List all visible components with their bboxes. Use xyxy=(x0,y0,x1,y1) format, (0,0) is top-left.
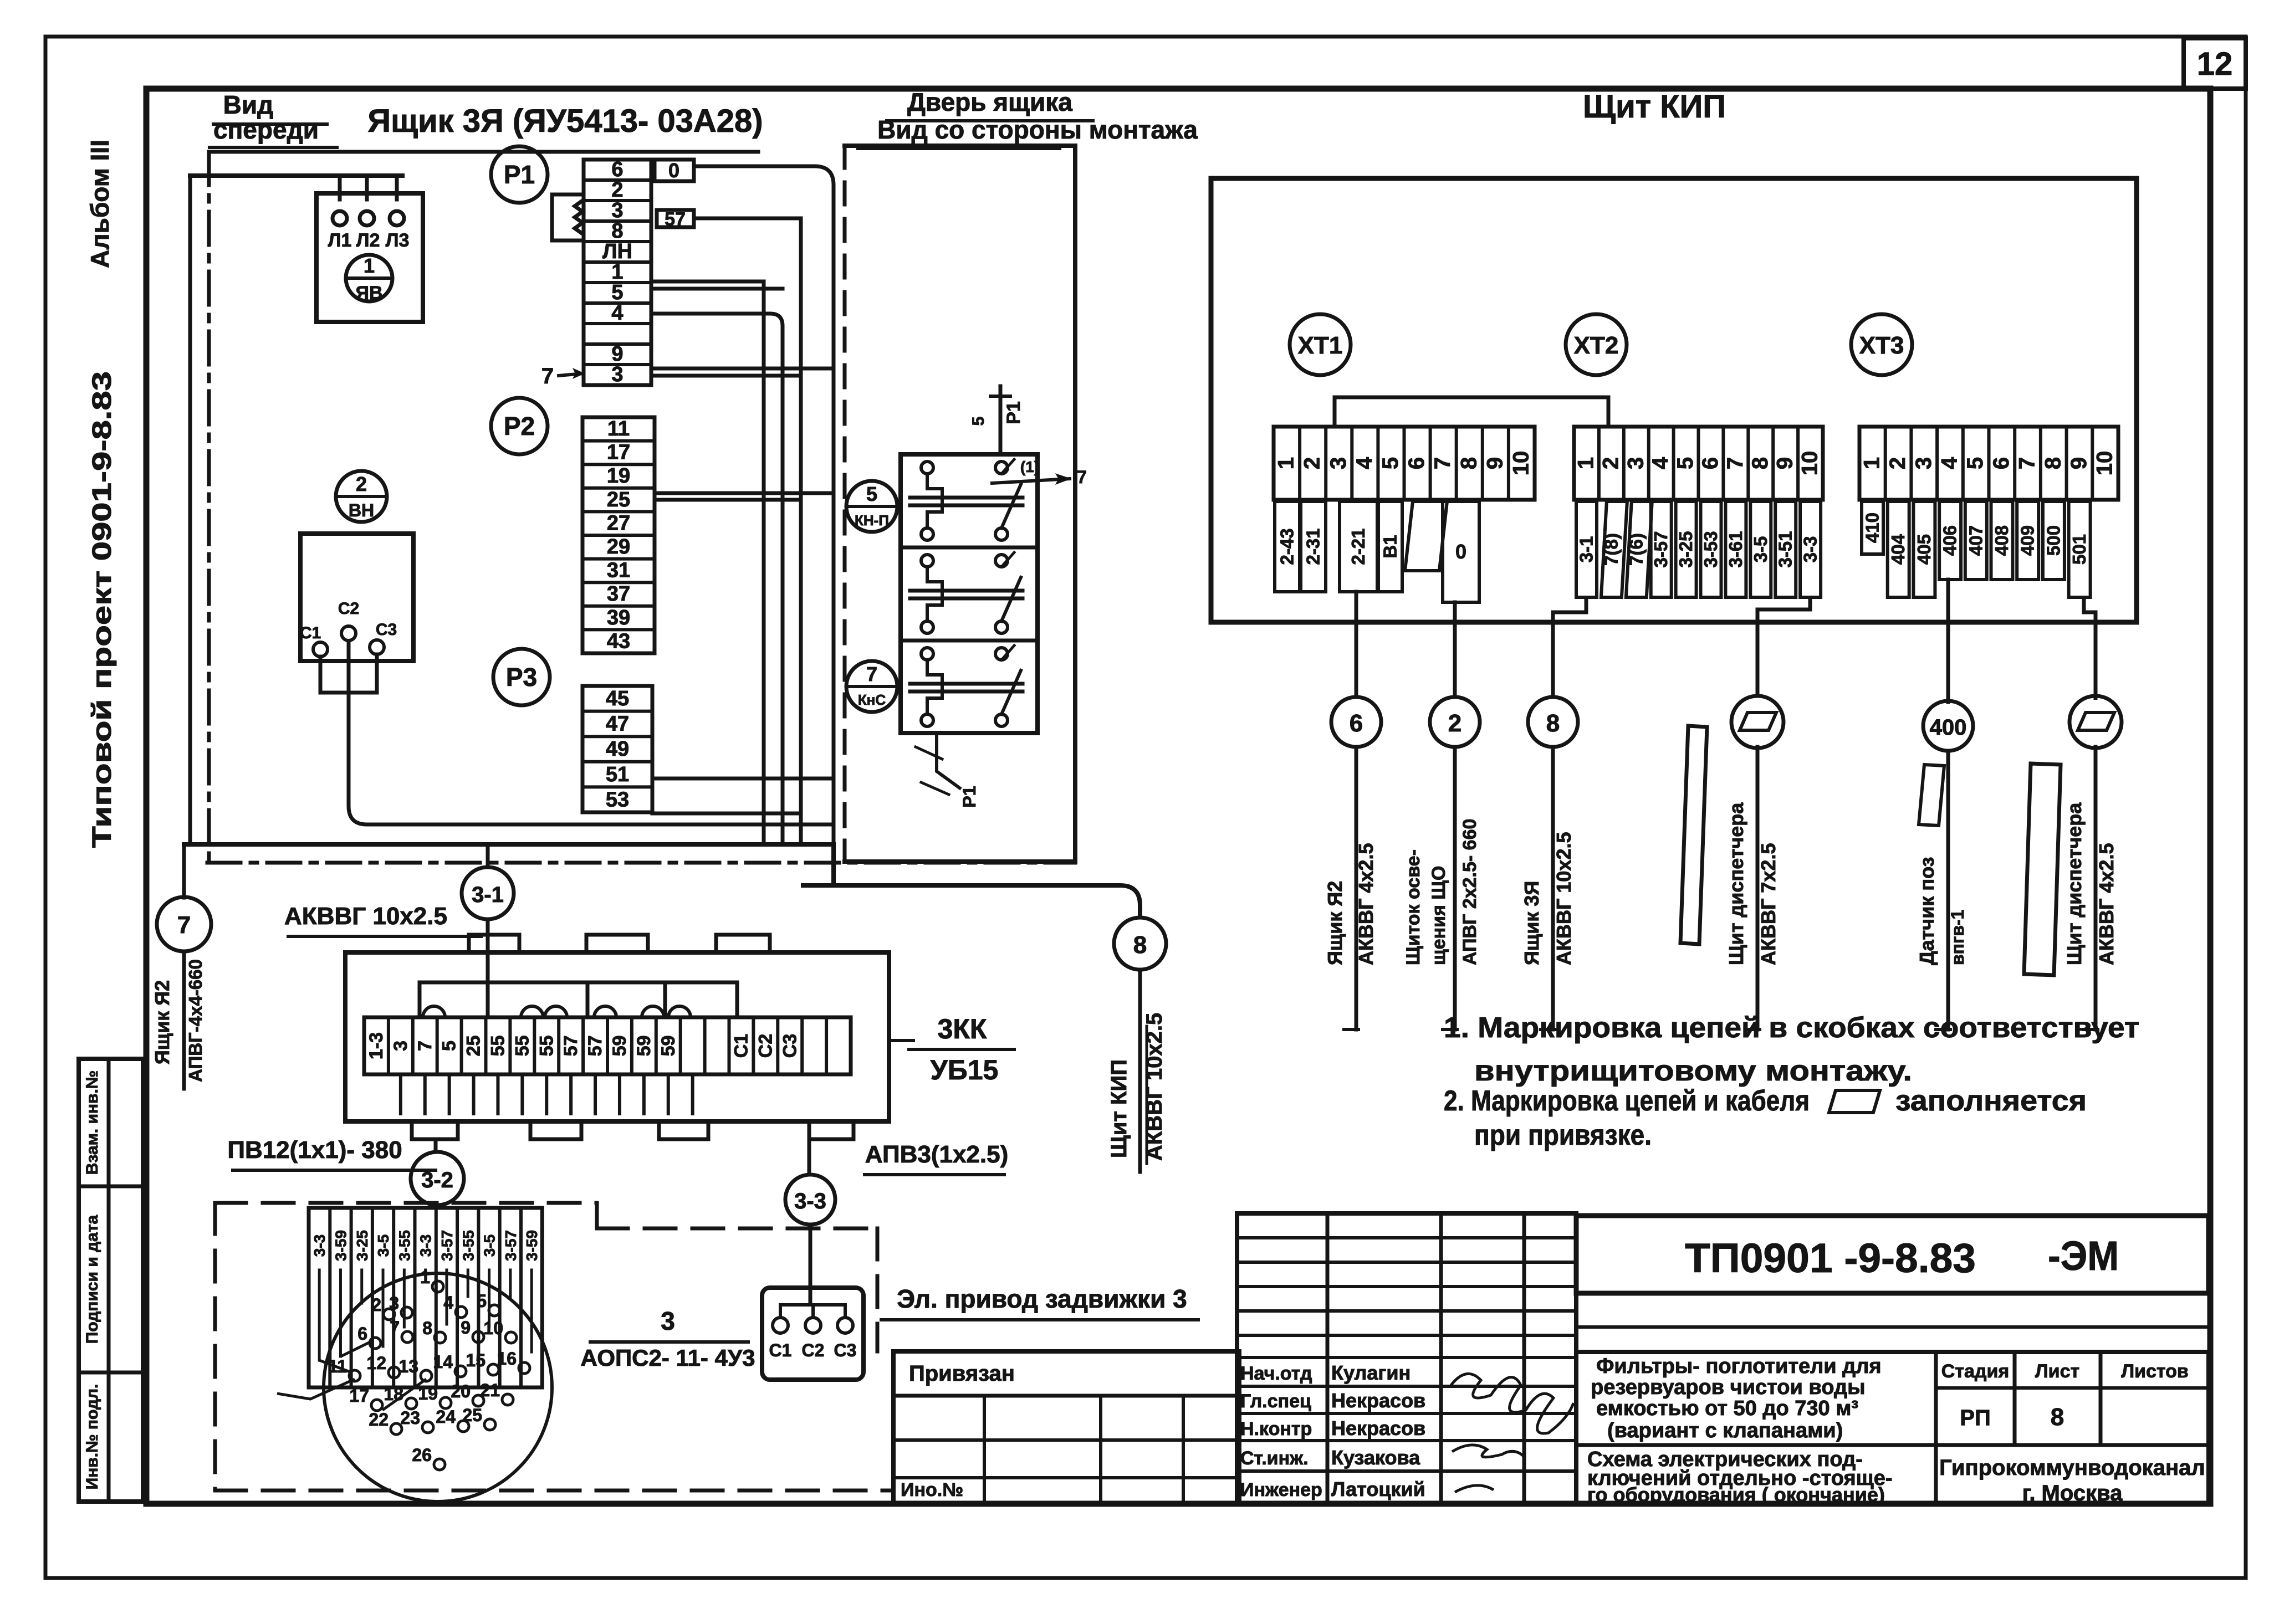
svg-text:9: 9 xyxy=(611,342,623,366)
svg-text:0: 0 xyxy=(1455,540,1466,563)
svg-text:емкостью от 50 до 730 м³: емкостью от 50 до 730 м³ xyxy=(1596,1397,1858,1420)
svg-text:3-57: 3-57 xyxy=(502,1230,519,1261)
svg-text:КнС: КнС xyxy=(858,691,886,708)
svg-text:АКВВГ 10х2.5: АКВВГ 10х2.5 xyxy=(284,903,447,930)
svg-text:57: 57 xyxy=(665,209,686,230)
svg-text:7: 7 xyxy=(177,911,191,939)
svg-text:4: 4 xyxy=(443,1293,453,1313)
svg-text:59: 59 xyxy=(609,1036,630,1057)
svg-text:3-59: 3-59 xyxy=(523,1230,540,1261)
svg-text:7: 7 xyxy=(2015,457,2040,469)
svg-text:10: 10 xyxy=(483,1318,503,1338)
svg-text:Некрасов: Некрасов xyxy=(1331,1417,1425,1439)
svg-text:7(8): 7(8) xyxy=(1601,533,1621,566)
svg-text:Взам. инв.№: Взам. инв.№ xyxy=(83,1070,101,1175)
svg-text:впгв-1: впгв-1 xyxy=(1948,910,1968,965)
svg-text:Привязан: Привязан xyxy=(909,1361,1015,1386)
svg-text:Альбом III: Альбом III xyxy=(85,140,114,268)
svg-text:9: 9 xyxy=(1483,457,1507,469)
svg-text:2: 2 xyxy=(1598,457,1623,469)
svg-text:АОПС2- 11- 4У3: АОПС2- 11- 4У3 xyxy=(581,1345,755,1371)
svg-text:Р2: Р2 xyxy=(504,412,535,440)
svg-text:Р1: Р1 xyxy=(504,160,535,189)
svg-text:С3: С3 xyxy=(376,621,397,639)
svg-text:12: 12 xyxy=(366,1353,386,1373)
svg-text:500: 500 xyxy=(2043,525,2063,556)
svg-text:29: 29 xyxy=(607,535,630,559)
svg-text:2-43: 2-43 xyxy=(1277,528,1297,565)
svg-text:5: 5 xyxy=(866,483,877,505)
svg-text:6: 6 xyxy=(1350,710,1363,737)
svg-text:Кулагин: Кулагин xyxy=(1331,1361,1411,1384)
svg-text:55: 55 xyxy=(487,1036,508,1057)
svg-text:Л2: Л2 xyxy=(356,230,380,251)
svg-text:0: 0 xyxy=(668,159,679,182)
svg-text:ВН: ВН xyxy=(349,500,374,520)
svg-text:22: 22 xyxy=(369,1410,389,1430)
svg-text:ТП0901 -9-8.83: ТП0901 -9-8.83 xyxy=(1685,1235,1976,1281)
svg-text:Ящик 3Я: Ящик 3Я xyxy=(1520,881,1543,965)
svg-text:Эл. привод задвижки 3: Эл. привод задвижки 3 xyxy=(897,1284,1187,1313)
svg-text:5: 5 xyxy=(969,417,988,426)
svg-text:Латоцкий: Латоцкий xyxy=(1331,1478,1425,1500)
svg-text:Л3: Л3 xyxy=(386,230,410,251)
svg-text:КН-П: КН-П xyxy=(855,512,889,529)
svg-text:3-51: 3-51 xyxy=(1775,531,1796,567)
svg-text:49: 49 xyxy=(606,737,629,761)
svg-text:3-5: 3-5 xyxy=(481,1234,498,1257)
svg-text:7(6): 7(6) xyxy=(1626,533,1646,566)
svg-text:С1: С1 xyxy=(300,624,321,642)
svg-text:Ящик Я2: Ящик Я2 xyxy=(151,980,173,1064)
svg-text:8: 8 xyxy=(611,219,623,243)
svg-text:6: 6 xyxy=(1698,457,1723,469)
svg-text:ХТ3: ХТ3 xyxy=(1859,332,1904,359)
svg-text:3-5: 3-5 xyxy=(1750,536,1771,563)
svg-text:Гипрокоммунводоканал: Гипрокоммунводоканал xyxy=(1939,1456,2205,1480)
svg-text:21: 21 xyxy=(480,1380,500,1400)
svg-text:2: 2 xyxy=(371,1295,381,1315)
svg-text:С3: С3 xyxy=(779,1034,800,1058)
svg-text:31: 31 xyxy=(607,559,630,582)
svg-text:Нач.отд: Нач.отд xyxy=(1240,1363,1312,1384)
svg-text:С3: С3 xyxy=(834,1340,857,1360)
svg-text:10: 10 xyxy=(2093,451,2117,476)
svg-text:8: 8 xyxy=(2041,457,2065,469)
svg-text:АПВГ 2х2.5- 660: АПВГ 2х2.5- 660 xyxy=(1459,819,1480,965)
svg-text:Фильтры- поглотители для: Фильтры- поглотители для xyxy=(1596,1355,1882,1378)
svg-text:3: 3 xyxy=(389,1293,399,1313)
svg-text:Некрасов: Некрасов xyxy=(1331,1389,1425,1412)
svg-text:внутрищитовому монтажу.: внутрищитовому монтажу. xyxy=(1474,1055,1912,1087)
svg-text:1: 1 xyxy=(1274,457,1299,469)
svg-text:Ящик 3Я (ЯУ5413- 03А28): Ящик 3Я (ЯУ5413- 03А28) xyxy=(367,103,763,139)
svg-text:Инв.№ подл.: Инв.№ подл. xyxy=(83,1384,101,1490)
svg-text:С2: С2 xyxy=(338,600,359,618)
svg-text:-ЭМ: -ЭМ xyxy=(2048,1233,2119,1279)
svg-text:1: 1 xyxy=(364,254,375,277)
svg-text:8: 8 xyxy=(1546,710,1560,737)
svg-text:Ящик Я2: Ящик Я2 xyxy=(1323,881,1346,965)
svg-text:8: 8 xyxy=(422,1318,432,1338)
svg-text:Подписи и дата: Подписи и дата xyxy=(83,1215,101,1344)
svg-text:11: 11 xyxy=(607,417,630,440)
svg-text:3-5: 3-5 xyxy=(375,1234,392,1257)
svg-text:ХТ1: ХТ1 xyxy=(1298,332,1343,359)
svg-text:410: 410 xyxy=(1862,513,1883,543)
svg-text:53: 53 xyxy=(606,788,629,811)
svg-text:5: 5 xyxy=(1673,457,1698,469)
svg-text:АКВВГ 10х2.5: АКВВГ 10х2.5 xyxy=(1552,832,1575,966)
svg-text:Ино.№: Ино.№ xyxy=(901,1479,963,1500)
svg-text:(вариант с клапанами): (вариант с клапанами) xyxy=(1607,1419,1843,1442)
svg-text:57: 57 xyxy=(560,1036,581,1057)
svg-text:3-3: 3-3 xyxy=(1800,536,1821,563)
svg-text:12: 12 xyxy=(2197,46,2233,82)
svg-text:2. Маркировка цепей и кабеля: 2. Маркировка цепей и кабеля xyxy=(1444,1085,1810,1117)
svg-text:3: 3 xyxy=(611,363,623,386)
svg-text:5: 5 xyxy=(477,1291,487,1311)
svg-text:37: 37 xyxy=(607,582,630,606)
svg-text:Р1: Р1 xyxy=(1003,401,1024,424)
svg-text:Кузакова: Кузакова xyxy=(1331,1446,1420,1469)
svg-text:55: 55 xyxy=(536,1036,557,1057)
svg-text:С1: С1 xyxy=(730,1034,752,1058)
svg-text:2: 2 xyxy=(1448,710,1462,737)
svg-text:25: 25 xyxy=(607,488,630,511)
svg-text:7: 7 xyxy=(390,1318,400,1338)
svg-text:45: 45 xyxy=(606,687,629,710)
svg-text:51: 51 xyxy=(606,763,629,786)
svg-text:5: 5 xyxy=(439,1041,460,1051)
svg-text:2: 2 xyxy=(1885,457,1910,469)
svg-text:3-3: 3-3 xyxy=(311,1234,328,1257)
svg-text:го оборудования ( окончание): го оборудования ( окончание) xyxy=(1587,1483,1885,1506)
svg-text:Гл.спец: Гл.спец xyxy=(1240,1391,1311,1412)
svg-text:8: 8 xyxy=(1133,931,1147,959)
svg-text:19: 19 xyxy=(607,464,630,488)
svg-text:Датчик поз: Датчик поз xyxy=(1915,857,1938,965)
svg-text:АКВВГ 7х2.5: АКВВГ 7х2.5 xyxy=(1757,843,1780,965)
svg-text:резервуаров чистои воды: резервуаров чистои воды xyxy=(1591,1376,1866,1399)
svg-text:17: 17 xyxy=(607,441,630,464)
svg-text:3-2: 3-2 xyxy=(421,1168,453,1192)
svg-text:Ст.инж.: Ст.инж. xyxy=(1240,1448,1309,1469)
svg-text:Щит КИП: Щит КИП xyxy=(1583,89,1726,125)
svg-text:3: 3 xyxy=(1326,457,1351,469)
svg-text:408: 408 xyxy=(1991,525,2012,556)
svg-text:В1: В1 xyxy=(1380,535,1401,558)
svg-text:409: 409 xyxy=(2017,525,2038,556)
svg-text:404: 404 xyxy=(1888,534,1908,565)
svg-text:Н.контр: Н.контр xyxy=(1240,1418,1312,1439)
svg-text:55: 55 xyxy=(512,1036,533,1057)
svg-text:1-3: 1-3 xyxy=(366,1032,387,1059)
svg-text:С2: С2 xyxy=(802,1340,825,1360)
svg-text:1: 1 xyxy=(1859,457,1884,469)
svg-text:при привязке.: при привязке. xyxy=(1474,1119,1652,1151)
svg-text:19: 19 xyxy=(418,1384,438,1403)
svg-text:ПВ12(1х1)- 380: ПВ12(1х1)- 380 xyxy=(227,1136,402,1164)
svg-text:Щит диспетчера: Щит диспетчера xyxy=(2063,802,2086,965)
svg-text:Вид со стороны монтажа: Вид со стороны монтажа xyxy=(877,115,1198,144)
svg-text:23: 23 xyxy=(400,1408,420,1428)
svg-text:2-21: 2-21 xyxy=(1348,528,1368,565)
svg-text:3-1: 3-1 xyxy=(472,883,504,907)
svg-text:3-55: 3-55 xyxy=(396,1230,413,1261)
svg-text:43: 43 xyxy=(607,629,630,653)
svg-text:13: 13 xyxy=(398,1356,418,1376)
svg-text:501: 501 xyxy=(2069,534,2089,565)
svg-text:7: 7 xyxy=(1723,457,1747,469)
svg-text:1: 1 xyxy=(611,260,623,284)
svg-text:3-59: 3-59 xyxy=(332,1230,349,1261)
svg-text:3-61: 3-61 xyxy=(1725,531,1746,567)
svg-text:1: 1 xyxy=(1573,457,1598,469)
svg-text:3-25: 3-25 xyxy=(1675,531,1696,567)
svg-text:25: 25 xyxy=(462,1405,482,1425)
svg-text:спереди: спереди xyxy=(213,115,319,144)
svg-text:7: 7 xyxy=(541,364,554,388)
svg-text:3-3: 3-3 xyxy=(417,1234,435,1257)
svg-text:г. Москва: г. Москва xyxy=(2022,1481,2123,1505)
svg-text:407: 407 xyxy=(1965,525,1986,556)
svg-text:3-25: 3-25 xyxy=(354,1230,371,1261)
svg-text:Щит КИП: Щит КИП xyxy=(1107,1059,1131,1158)
svg-text:8: 8 xyxy=(2051,1403,2064,1431)
svg-text:15: 15 xyxy=(466,1350,486,1370)
svg-text:3: 3 xyxy=(661,1307,675,1335)
svg-text:7: 7 xyxy=(1077,467,1087,487)
svg-text:6: 6 xyxy=(357,1324,367,1344)
svg-text:6: 6 xyxy=(1404,457,1429,469)
svg-text:14: 14 xyxy=(433,1352,453,1372)
svg-text:4: 4 xyxy=(1648,457,1673,469)
svg-text:406: 406 xyxy=(1940,525,1960,556)
svg-text:3-57: 3-57 xyxy=(438,1230,456,1261)
svg-text:АПВГ-4х4-660: АПВГ-4х4-660 xyxy=(185,959,206,1082)
svg-text:9: 9 xyxy=(1773,457,1797,469)
svg-text:РП: РП xyxy=(1960,1406,1990,1430)
svg-text:3: 3 xyxy=(611,199,623,222)
svg-text:10: 10 xyxy=(1509,451,1533,476)
svg-text:Типовой проект 0901-9-8.83: Типовой проект 0901-9-8.83 xyxy=(88,371,117,848)
svg-text:3-3: 3-3 xyxy=(794,1189,826,1213)
svg-text:Инженер: Инженер xyxy=(1240,1479,1322,1500)
svg-text:59: 59 xyxy=(658,1036,679,1057)
svg-text:7: 7 xyxy=(1430,457,1455,469)
svg-text:9: 9 xyxy=(461,1318,471,1338)
svg-text:3КК: 3КК xyxy=(938,1013,987,1044)
svg-text:4: 4 xyxy=(1937,457,1961,469)
svg-text:3-55: 3-55 xyxy=(459,1230,477,1261)
svg-text:Щит диспетчера: Щит диспетчера xyxy=(1725,802,1747,965)
svg-text:Р1: Р1 xyxy=(959,786,979,807)
svg-text:(1): (1) xyxy=(1020,458,1039,475)
svg-text:27: 27 xyxy=(607,511,630,535)
svg-text:УБ15: УБ15 xyxy=(931,1054,999,1085)
svg-text:57: 57 xyxy=(585,1036,606,1057)
svg-text:16: 16 xyxy=(497,1349,517,1369)
svg-text:400: 400 xyxy=(1930,715,1967,740)
svg-text:2: 2 xyxy=(611,178,623,202)
svg-text:ЛН: ЛН xyxy=(602,240,632,263)
svg-text:8: 8 xyxy=(1457,457,1481,469)
svg-text:С1: С1 xyxy=(769,1340,792,1360)
svg-text:7: 7 xyxy=(866,663,877,685)
svg-text:3-1: 3-1 xyxy=(1576,536,1597,563)
svg-text:ЯВ: ЯВ xyxy=(356,283,383,304)
svg-text:3-57: 3-57 xyxy=(1650,531,1671,567)
svg-text:47: 47 xyxy=(606,713,629,736)
svg-text:Лист: Лист xyxy=(2035,1361,2079,1382)
svg-text:59: 59 xyxy=(633,1036,655,1057)
svg-text:25: 25 xyxy=(463,1036,484,1057)
svg-text:С2: С2 xyxy=(755,1034,776,1058)
svg-text:26: 26 xyxy=(412,1445,432,1465)
svg-text:АКВВГ 4х2.5: АКВВГ 4х2.5 xyxy=(1355,843,1377,965)
svg-text:Дверь ящика: Дверь ящика xyxy=(907,88,1072,116)
svg-text:АКВВГ 4х2.5: АКВВГ 4х2.5 xyxy=(2095,843,2118,965)
svg-text:Щиток осве-: Щиток осве- xyxy=(1403,849,1424,965)
svg-text:Стадия: Стадия xyxy=(1941,1361,2009,1382)
svg-text:405: 405 xyxy=(1914,534,1934,565)
svg-text:6: 6 xyxy=(611,158,623,181)
svg-text:Р3: Р3 xyxy=(506,663,537,691)
svg-text:6: 6 xyxy=(1989,457,2014,469)
svg-text:заполняется: заполняется xyxy=(1895,1085,2087,1117)
svg-text:ХТ2: ХТ2 xyxy=(1574,332,1619,359)
svg-text:20: 20 xyxy=(451,1381,471,1401)
svg-text:39: 39 xyxy=(607,606,630,629)
svg-text:8: 8 xyxy=(1748,457,1772,469)
svg-text:2: 2 xyxy=(356,473,367,495)
svg-text:5: 5 xyxy=(1963,457,1987,469)
svg-text:3: 3 xyxy=(1623,457,1648,469)
svg-text:3-53: 3-53 xyxy=(1700,531,1721,567)
svg-text:7: 7 xyxy=(415,1041,436,1051)
svg-text:Л1: Л1 xyxy=(328,230,352,251)
svg-text:АПВ3(1х2.5): АПВ3(1х2.5) xyxy=(865,1141,1008,1168)
svg-text:9: 9 xyxy=(2067,457,2091,469)
svg-text:2-31: 2-31 xyxy=(1303,528,1323,565)
svg-text:4: 4 xyxy=(611,301,623,325)
svg-text:2: 2 xyxy=(1300,457,1325,469)
svg-text:5: 5 xyxy=(611,281,623,304)
svg-text:17: 17 xyxy=(349,1386,369,1406)
svg-text:5: 5 xyxy=(1378,457,1403,469)
svg-text:1. Маркировка цепей в скобка: 1. Маркировка цепей в скобках соответств… xyxy=(1444,1012,2139,1044)
svg-text:3: 3 xyxy=(1912,457,1936,469)
svg-text:24: 24 xyxy=(436,1407,456,1427)
svg-text:щения ЩО: щения ЩО xyxy=(1428,866,1449,965)
svg-text:4: 4 xyxy=(1352,457,1377,469)
svg-text:10: 10 xyxy=(1798,451,1822,476)
svg-text:3: 3 xyxy=(390,1041,411,1051)
svg-text:Листов: Листов xyxy=(2121,1361,2189,1382)
